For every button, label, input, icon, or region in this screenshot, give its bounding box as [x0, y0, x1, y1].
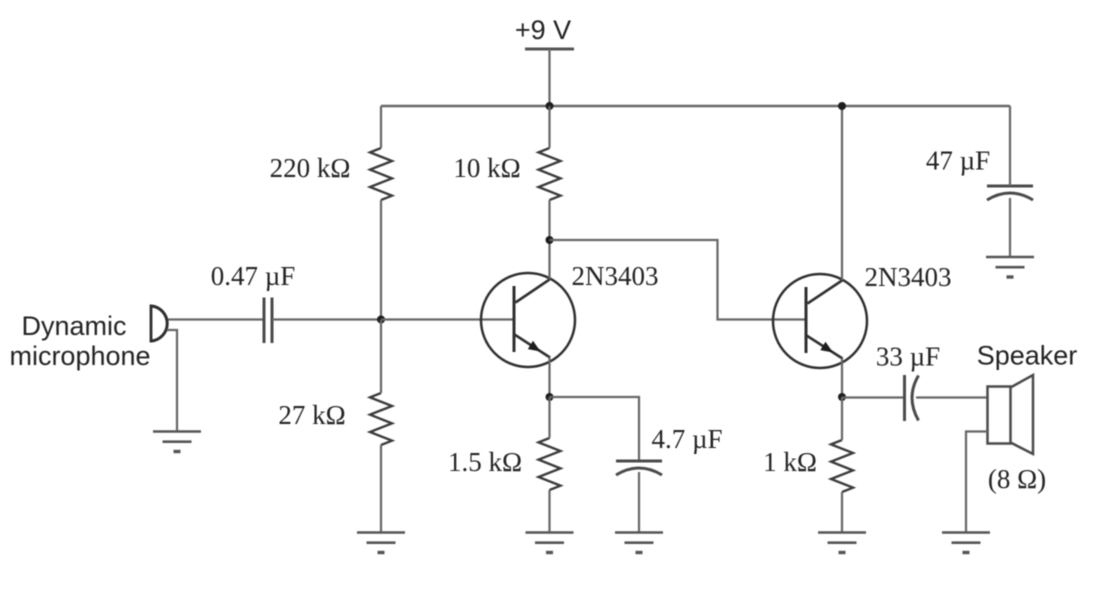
node D junction [838, 102, 846, 110]
svg-text:+9 V: +9 V [515, 15, 571, 45]
wire C3 to ground [638, 472, 640, 533]
node E junction [838, 393, 846, 401]
wire 10k top lead [548, 106, 550, 148]
resistor R3 27 kOhm [370, 393, 392, 445]
wire Q1 collector [548, 240, 550, 279]
ground 1.5k [526, 533, 574, 553]
resistor R4 1.5 kOhm [539, 438, 561, 490]
svg-text:2N3403: 2N3403 [865, 262, 952, 292]
wire 1.5k top lead [548, 397, 550, 438]
transistor Q2 2N3403 [773, 274, 867, 368]
capacitor C1 0.47 uF [264, 298, 272, 344]
svg-text:2N3403: 2N3403 [572, 261, 659, 291]
node B junction [546, 236, 554, 244]
speaker SPK1 [988, 375, 1034, 454]
svg-text:220 kΩ: 220 kΩ [270, 153, 351, 183]
capacitor C3 4.7 uF [616, 461, 662, 475]
wire 27k bottom lead [380, 445, 382, 533]
wire rail to 47uF [1009, 106, 1011, 186]
wire Q1 emitter [548, 357, 550, 397]
svg-text:1.5 kΩ: 1.5 kΩ [448, 447, 522, 477]
node C junction [546, 393, 554, 401]
wire C4 to speaker [916, 396, 988, 398]
wire mic output [168, 318, 264, 320]
resistor R2 10 kOhm [539, 148, 561, 200]
wire 10k bottom lead [548, 200, 550, 240]
wire supply lead [548, 49, 550, 106]
svg-text:microphone: microphone [9, 341, 150, 371]
svg-text:Speaker: Speaker [977, 341, 1078, 371]
wire 47uF to ground [1009, 198, 1011, 257]
svg-text:0.47 µF: 0.47 µF [211, 261, 296, 291]
resistor R5 1 kOhm [831, 440, 853, 492]
ground 27k [357, 533, 405, 553]
wire node A to Q1 base [381, 318, 514, 320]
capacitor C2 47 uF [987, 186, 1033, 200]
wire 27k top lead [380, 320, 382, 393]
capacitor C4 33 uF [905, 375, 919, 421]
svg-text:33 µF: 33 µF [876, 342, 940, 372]
ground C3 [615, 533, 663, 553]
wire 1k bottom lead [841, 492, 843, 533]
svg-text:4.7 µF: 4.7 µF [651, 424, 722, 454]
wire top rail [381, 105, 1010, 107]
ground mic [153, 432, 201, 452]
wire Q2 emitter [841, 358, 843, 397]
wire 1.5k bottom lead [548, 490, 550, 533]
ground speaker [942, 533, 990, 553]
wire 1k top lead [841, 397, 843, 440]
node supply junction [546, 102, 554, 110]
wire mic to ground [167, 330, 177, 432]
wire Q2 collector [841, 106, 843, 280]
svg-text:27 kΩ: 27 kΩ [278, 400, 345, 430]
wire node C to C3 [550, 397, 640, 461]
svg-text:10 kΩ: 10 kΩ [453, 153, 520, 183]
ground 47uF [986, 257, 1034, 277]
+9 V supply bar [525, 48, 574, 51]
wire node E to C4 [842, 396, 905, 398]
svg-text:(8 Ω): (8 Ω) [988, 464, 1046, 494]
svg-text:Dynamic: Dynamic [21, 311, 126, 341]
dynamic microphone MIC1 [151, 305, 167, 343]
wire Q1 collector to Q2 base [550, 240, 807, 320]
svg-text:1 kΩ: 1 kΩ [763, 447, 817, 477]
wire C1 to node A [272, 318, 381, 320]
wire speaker return [966, 432, 988, 533]
wire 220k top lead [380, 106, 382, 148]
node A junction [377, 316, 385, 324]
svg-text:47 µF: 47 µF [926, 146, 990, 176]
wire 220k bottom lead [380, 200, 382, 320]
ground 1k [818, 533, 866, 553]
resistor R1 220 kOhm [370, 148, 392, 200]
transistor Q1 2N3403 [481, 273, 575, 367]
